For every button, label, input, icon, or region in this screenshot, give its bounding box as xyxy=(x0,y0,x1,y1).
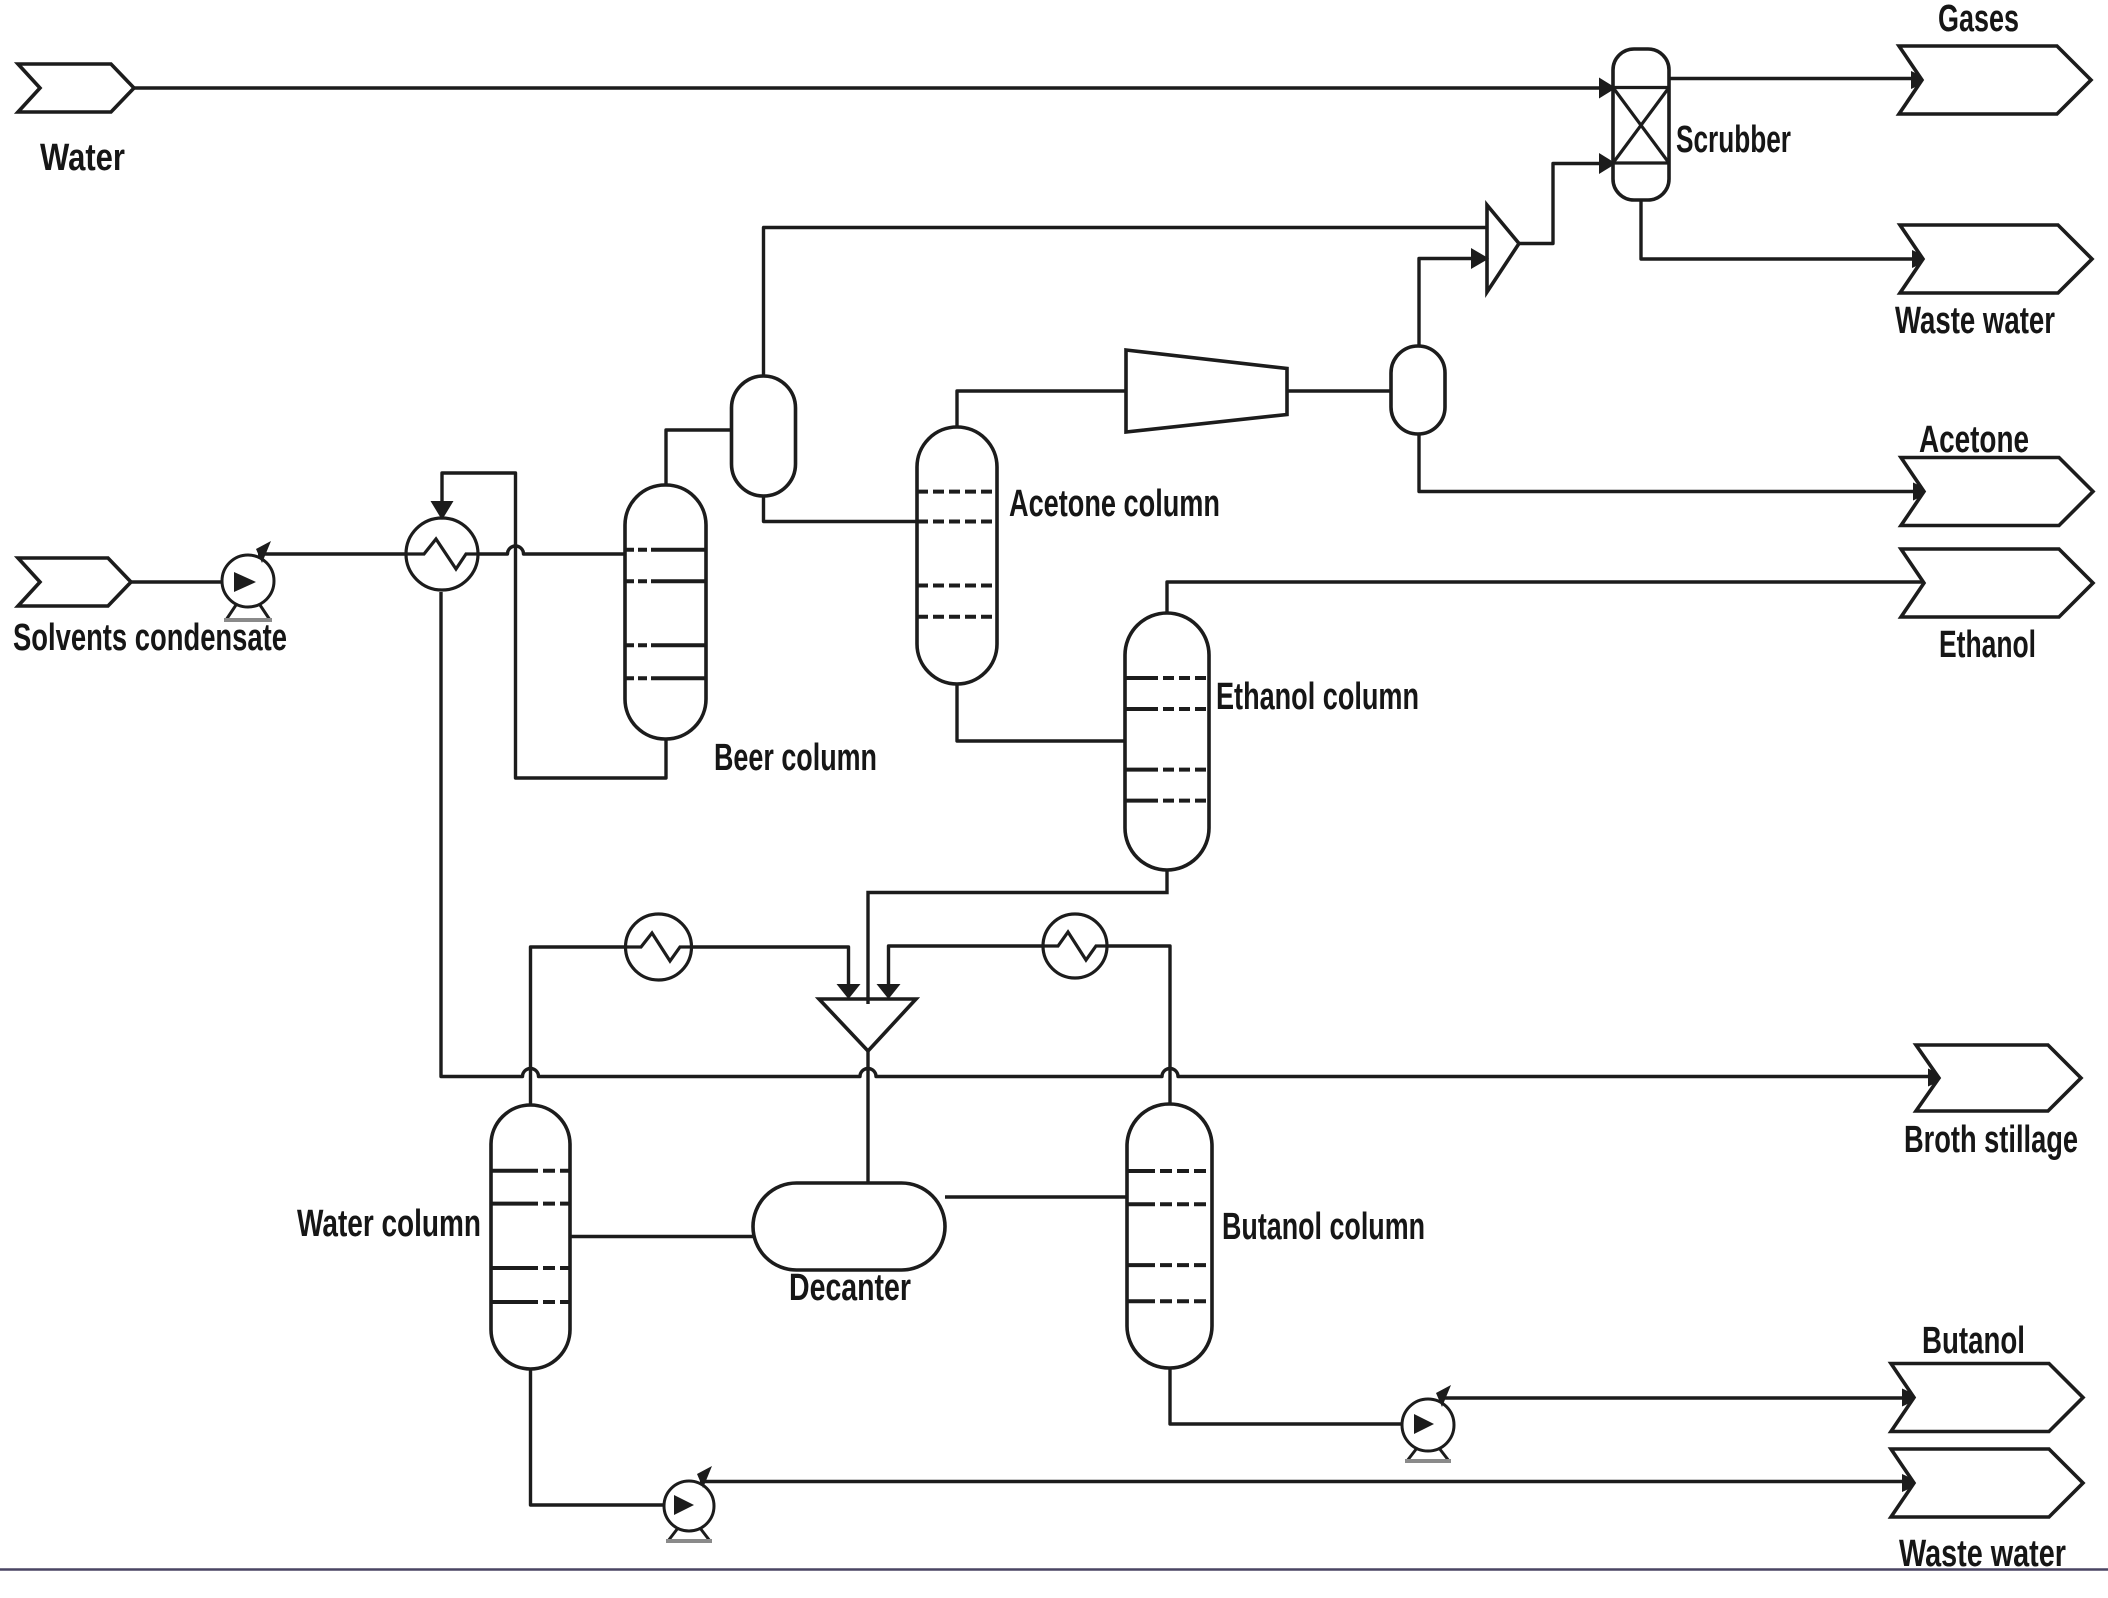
svg-text:Water column: Water column xyxy=(297,1203,481,1245)
svg-text:Acetone: Acetone xyxy=(1919,419,2029,461)
svg-text:Ethanol column: Ethanol column xyxy=(1216,676,1419,718)
svg-text:Beer column: Beer column xyxy=(714,737,877,779)
svg-text:Decanter: Decanter xyxy=(789,1267,911,1309)
svg-text:Ethanol: Ethanol xyxy=(1939,624,2036,666)
svg-text:Waste water: Waste water xyxy=(1895,300,2055,342)
svg-text:Butanol column: Butanol column xyxy=(1222,1206,1425,1248)
svg-text:Solvents condensate: Solvents condensate xyxy=(13,617,287,659)
svg-text:Broth stillage: Broth stillage xyxy=(1904,1119,2078,1161)
svg-text:Gases: Gases xyxy=(1938,0,2019,40)
svg-text:Butanol: Butanol xyxy=(1922,1320,2025,1362)
svg-text:Water: Water xyxy=(40,137,125,179)
svg-text:Scrubber: Scrubber xyxy=(1676,119,1791,161)
svg-text:Acetone column: Acetone column xyxy=(1009,483,1220,525)
